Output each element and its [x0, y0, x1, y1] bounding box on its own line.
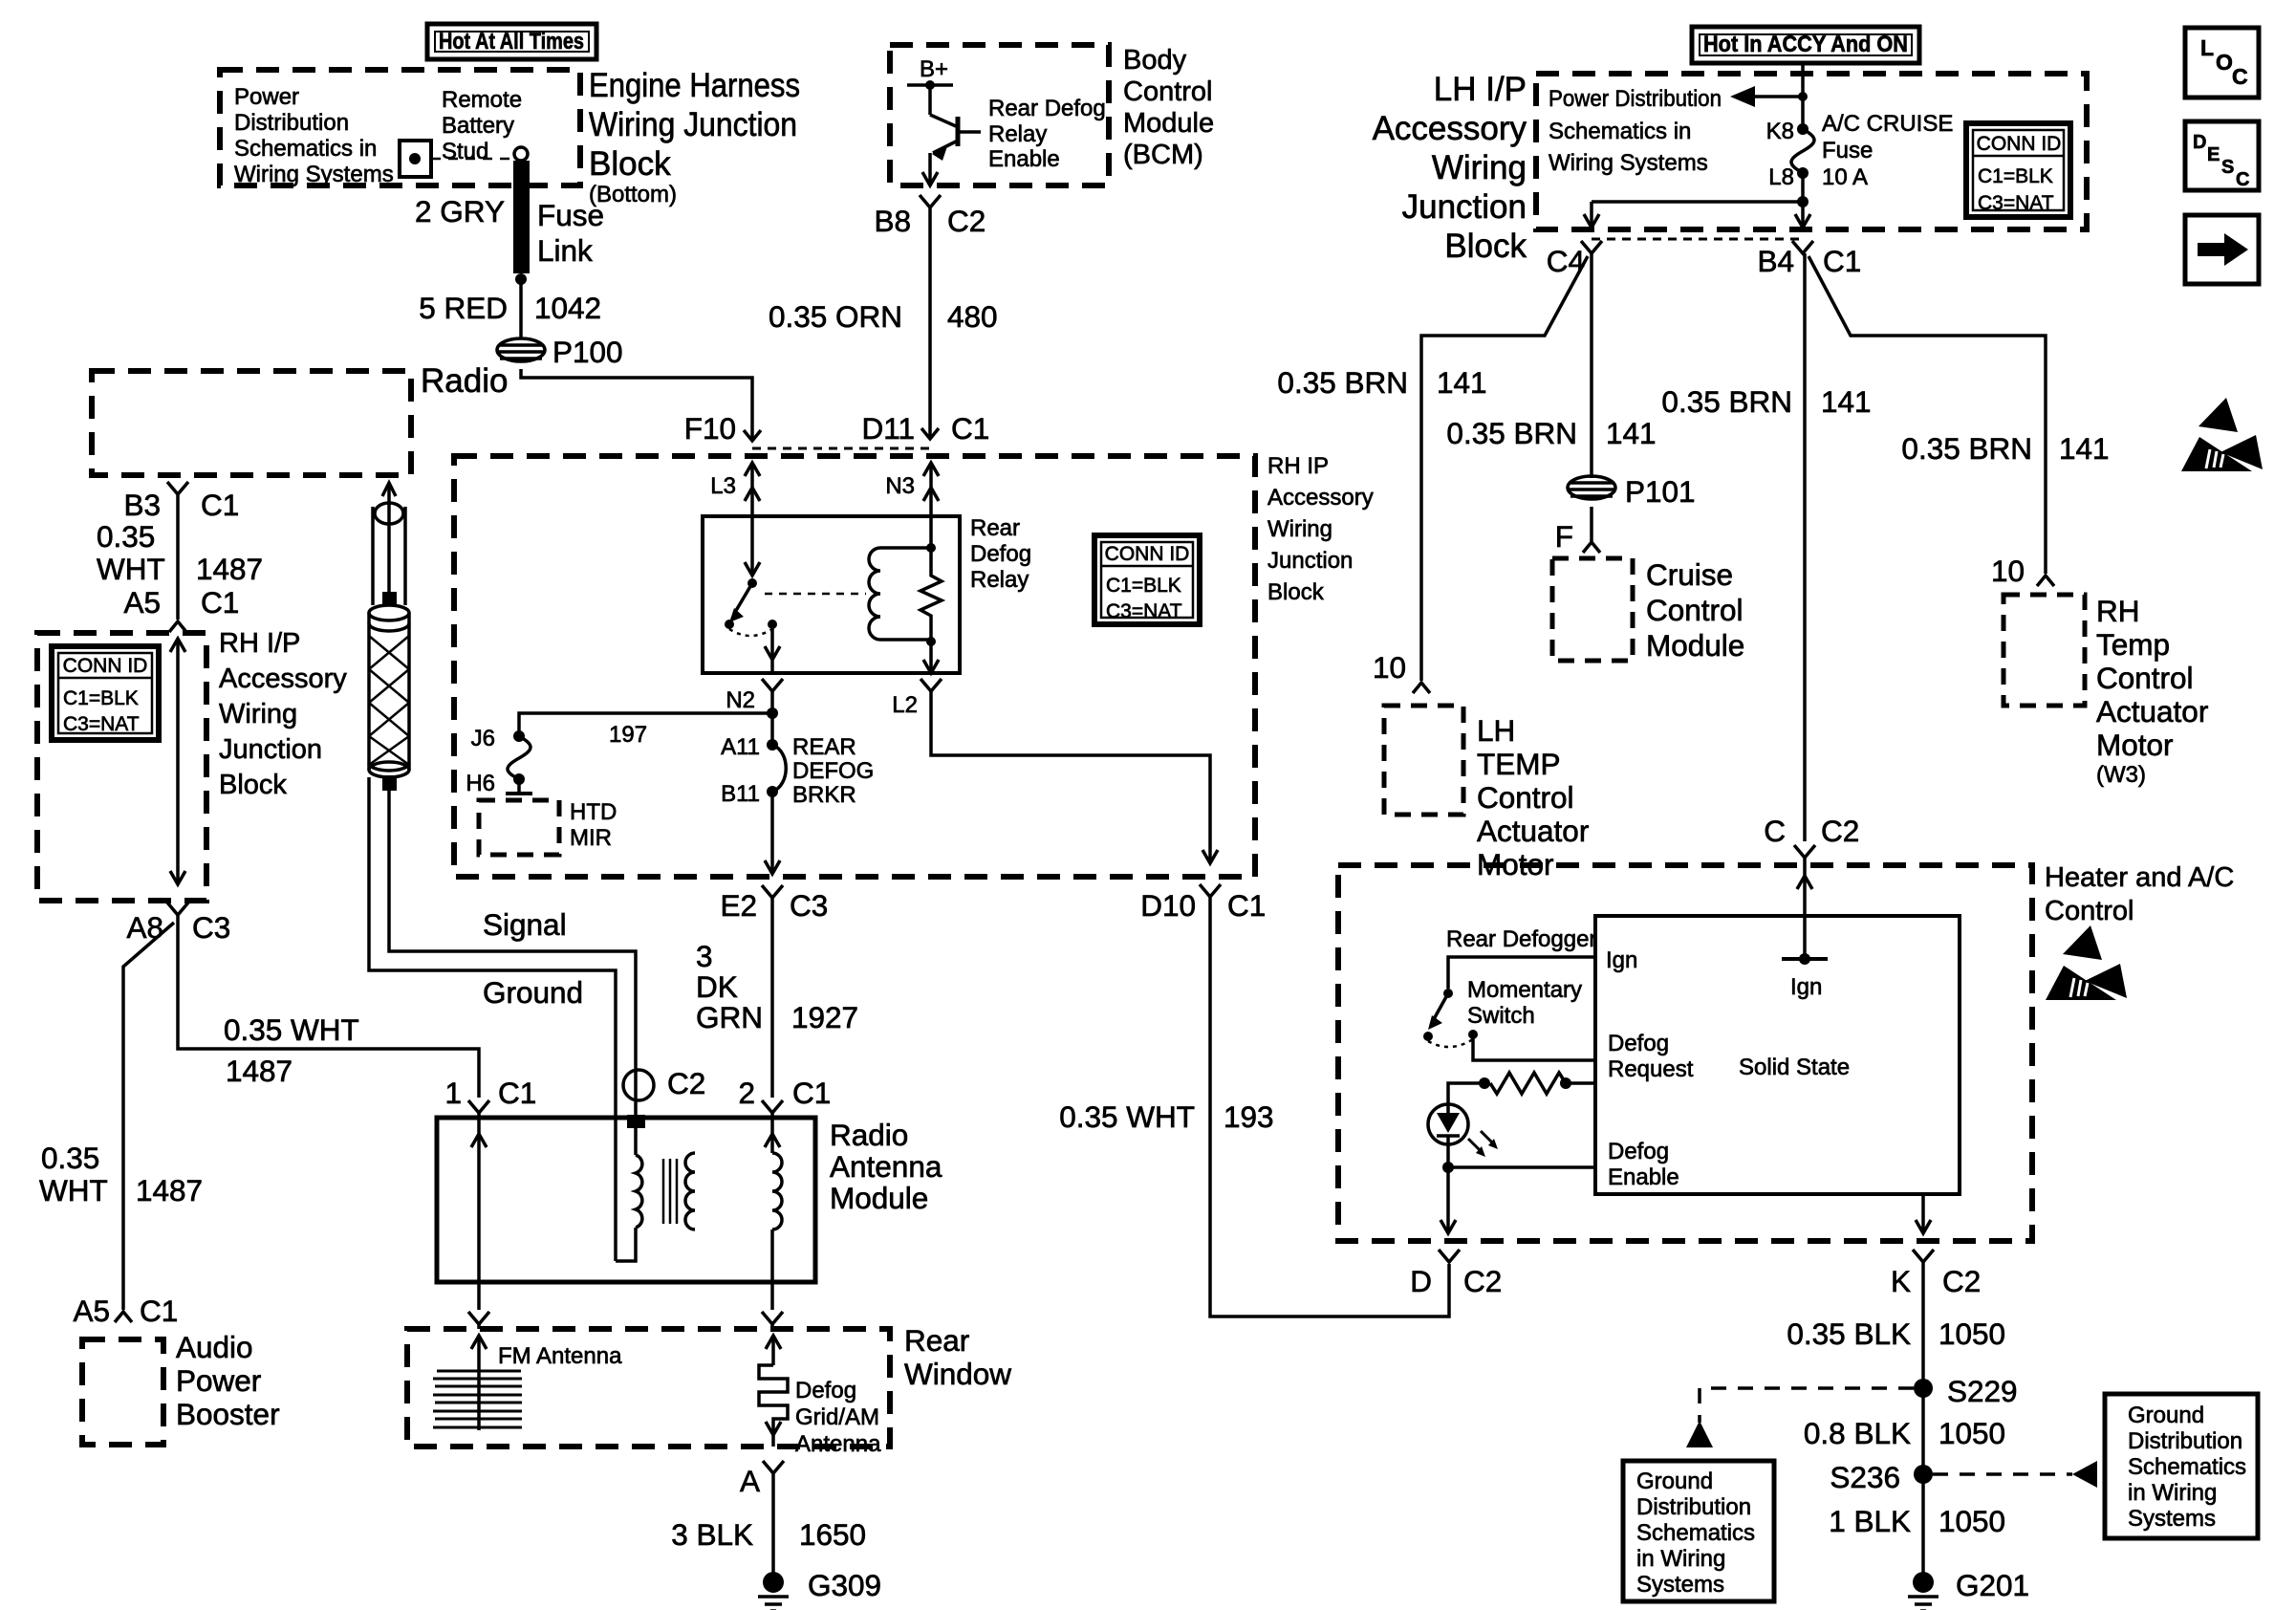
CONN ID table (left)	[52, 646, 159, 740]
label "RH Temp Control Actuator Motor (W3)"	[2096, 594, 2208, 788]
svg-text:A5: A5	[73, 1294, 110, 1328]
svg-text:LH: LH	[1477, 713, 1515, 748]
svg-text:FM Antenna: FM Antenna	[498, 1343, 622, 1369]
svg-text:Accessory: Accessory	[1373, 110, 1527, 147]
label "0.35 WHT 193"	[1059, 1099, 1273, 1134]
note "Power Distribution Schematics in Wiring Systems"	[1549, 86, 1722, 176]
svg-text:L3: L3	[710, 473, 736, 499]
label "K C2"	[1891, 1264, 1981, 1298]
svg-text:CONN ID: CONN ID	[63, 655, 148, 677]
svg-text:A8: A8	[126, 910, 163, 945]
label "0.35 BRN 141" (B4 run)	[1661, 384, 1871, 419]
svg-text:2 GRY: 2 GRY	[415, 194, 505, 228]
connector strip C4-B4 fine dashed	[1592, 238, 1803, 241]
connector N2 female end	[762, 679, 783, 691]
svg-text:1927: 1927	[791, 1000, 858, 1034]
svg-text:Actuator: Actuator	[2096, 694, 2208, 729]
svg-text:1050: 1050	[1939, 1416, 2005, 1450]
Radio dashed box	[92, 371, 411, 475]
svg-text:TEMP: TEMP	[1477, 747, 1561, 781]
svg-text:Rear: Rear	[970, 515, 1020, 541]
connector A5 male end	[169, 621, 186, 632]
svg-text:1650: 1650	[799, 1517, 866, 1552]
label "Rear Window"	[904, 1323, 1011, 1391]
svg-text:A11: A11	[721, 734, 760, 760]
connector A5 male end (audio power booster)	[115, 1312, 132, 1322]
splice S229	[1914, 1379, 1933, 1398]
svg-text:Motor: Motor	[2096, 728, 2174, 762]
svg-text:0.35 BRN: 0.35 BRN	[1446, 416, 1577, 450]
wire A8 to audio power booster	[123, 923, 174, 1310]
svg-text:P101: P101	[1625, 474, 1696, 509]
wire L2 to D10	[931, 691, 1210, 863]
svg-text:C1=BLK: C1=BLK	[1106, 575, 1181, 597]
CONN ID table (right)	[1966, 123, 2070, 217]
Engine Harness Wiring Junction Block dashed box	[220, 70, 580, 185]
relay coil output wire	[923, 642, 939, 673]
svg-text:MIR: MIR	[570, 825, 612, 851]
svg-text:Schematics in: Schematics in	[1549, 119, 1691, 144]
DESC index box	[2185, 121, 2259, 190]
svg-text:C1: C1	[1227, 888, 1266, 923]
svg-text:141: 141	[2059, 431, 2110, 466]
antenna mast	[373, 483, 405, 606]
wire module pin1 to rear window	[468, 1282, 489, 1329]
svg-text:C1: C1	[498, 1076, 536, 1110]
wire A to G309	[771, 1473, 775, 1574]
connector D female end	[1439, 1250, 1460, 1262]
FM antenna element	[433, 1336, 522, 1430]
label "2 C1"	[738, 1076, 831, 1110]
svg-text:C1=BLK: C1=BLK	[63, 687, 139, 709]
svg-text:Module: Module	[1123, 108, 1214, 139]
svg-text:1: 1	[444, 1076, 462, 1110]
svg-text:BRKR: BRKR	[792, 782, 856, 808]
svg-text:B3: B3	[123, 488, 161, 522]
svg-text:Solid State: Solid State	[1739, 1055, 1850, 1080]
wire pin1 through module	[471, 1113, 487, 1282]
svg-text:Block: Block	[219, 770, 287, 800]
svg-text:CONN ID: CONN ID	[1977, 133, 2062, 155]
svg-text:0.35 ORN: 0.35 ORN	[769, 299, 902, 334]
svg-text:Accessory: Accessory	[219, 664, 347, 694]
transformer primary winding	[616, 1128, 642, 1261]
svg-text:K: K	[1891, 1264, 1911, 1298]
svg-text:Power: Power	[234, 84, 299, 110]
label "3 BLK 1650"	[671, 1517, 866, 1552]
svg-text:C: C	[2232, 64, 2248, 89]
svg-text:Radio: Radio	[830, 1118, 908, 1152]
svg-text:480: 480	[947, 299, 998, 334]
forward arrow index box	[2185, 215, 2259, 284]
svg-text:Accessory: Accessory	[1267, 485, 1374, 511]
svg-text:B8: B8	[874, 204, 911, 238]
svg-text:Body: Body	[1123, 45, 1187, 76]
connector K female end	[1913, 1250, 1934, 1262]
svg-text:Block: Block	[1444, 228, 1527, 265]
svg-text:S229: S229	[1947, 1374, 2018, 1408]
relay switch arm	[725, 516, 780, 673]
label "5 RED 1042"	[419, 291, 601, 325]
svg-text:WHT: WHT	[97, 552, 165, 586]
svg-text:C2: C2	[667, 1066, 705, 1100]
svg-text:1050: 1050	[1939, 1504, 2005, 1538]
svg-text:0.35 BLK: 0.35 BLK	[1787, 1316, 1911, 1351]
wire D10 to heater D	[1210, 897, 1449, 1316]
Rear Window dashed box	[407, 1329, 890, 1447]
svg-text:S236: S236	[1830, 1460, 1900, 1494]
label "Body Control Module (BCM)"	[1123, 45, 1214, 170]
svg-text:C2: C2	[1463, 1264, 1502, 1298]
svg-text:D: D	[1410, 1264, 1432, 1298]
svg-text:Ground: Ground	[1636, 1469, 1713, 1494]
label "C C2"	[1764, 814, 1859, 848]
svg-text:Control: Control	[2096, 661, 2194, 695]
antenna coax body	[369, 605, 409, 791]
connector L2 female end	[921, 679, 942, 691]
label "3 DK GRN 1927"	[696, 939, 858, 1034]
svg-text:DEFOG: DEFOG	[792, 758, 874, 784]
svg-text:Wiring Systems: Wiring Systems	[234, 162, 394, 187]
connector D11 male end	[921, 428, 939, 439]
label "D C2"	[1410, 1264, 1502, 1298]
HTD MIR dashed box	[479, 800, 559, 855]
label "A5 C1"	[123, 585, 239, 620]
svg-text:C1: C1	[792, 1076, 831, 1110]
Audio Power Booster dashed box	[82, 1339, 163, 1445]
module C2 feedthrough square	[627, 1115, 645, 1128]
svg-text:K8: K8	[1766, 119, 1794, 144]
label "REAR DEFOG BRKR"	[792, 734, 874, 808]
svg-text:Distribution: Distribution	[234, 110, 349, 136]
svg-text:E: E	[2207, 144, 2220, 165]
label "0.35 WHT 1487" (vertical run)	[39, 1141, 203, 1207]
svg-text:Schematics in: Schematics in	[234, 136, 377, 162]
wire hot feed into junction block	[1798, 63, 1808, 129]
svg-text:10 A: 10 A	[1822, 164, 1868, 190]
connector F10 male end	[744, 430, 761, 441]
label "0.8 BLK 1050"	[1804, 1416, 2005, 1450]
svg-text:RH: RH	[2096, 594, 2140, 628]
svg-text:Block: Block	[589, 145, 671, 183]
connector B4 female end	[1792, 241, 1813, 253]
label "Engine Harness Wiring Junction Block (Bottom)"	[589, 67, 800, 207]
grommet P101	[1568, 476, 1615, 499]
svg-text:L8: L8	[1768, 164, 1794, 190]
connector A female end	[763, 1461, 784, 1473]
svg-text:Wiring Systems: Wiring Systems	[1549, 150, 1708, 176]
svg-text:Ign: Ign	[1790, 974, 1822, 1000]
svg-text:LH I/P: LH I/P	[1434, 71, 1527, 108]
svg-text:B4: B4	[1757, 244, 1794, 278]
wire C into solid state	[1797, 858, 1812, 959]
svg-text:L: L	[2200, 35, 2214, 60]
svg-text:Radio: Radio	[421, 362, 508, 400]
svg-text:Distribution: Distribution	[1636, 1494, 1751, 1520]
svg-text:Power: Power	[176, 1363, 261, 1398]
grommet P100	[497, 338, 545, 361]
svg-text:1050: 1050	[1939, 1316, 2005, 1351]
Radio Antenna Module box	[437, 1118, 815, 1282]
svg-text:S: S	[2221, 157, 2234, 178]
LH TEMP Control Actuator Motor dashed box	[1384, 706, 1463, 815]
CONN ID table (middle)	[1094, 535, 1200, 624]
indicator LED	[1428, 1104, 1498, 1167]
svg-text:Block: Block	[1267, 579, 1325, 605]
svg-text:Audio: Audio	[176, 1330, 253, 1364]
svg-text:Antenna: Antenna	[795, 1431, 881, 1457]
label "0.35 BRN 141" (right run)	[1901, 431, 2109, 466]
svg-text:Junction: Junction	[1402, 188, 1527, 226]
svg-text:C3=NAT: C3=NAT	[1106, 600, 1182, 622]
svg-text:Heater and A/C: Heater and A/C	[2045, 862, 2234, 893]
svg-text:Systems: Systems	[2128, 1506, 2216, 1532]
svg-text:Request: Request	[1608, 1056, 1694, 1082]
svg-text:0.35 WHT: 0.35 WHT	[224, 1012, 359, 1047]
svg-text:HTD: HTD	[570, 799, 617, 825]
wire antenna signal	[389, 791, 636, 1118]
svg-text:A5: A5	[123, 585, 161, 620]
svg-text:Wiring Junction: Wiring Junction	[589, 106, 797, 143]
svg-text:Actuator: Actuator	[1477, 814, 1589, 848]
svg-text:193: 193	[1224, 1099, 1274, 1134]
svg-text:Grid/AM: Grid/AM	[795, 1404, 879, 1430]
label "0.35 WHT 1487"	[97, 519, 263, 586]
svg-text:Defog: Defog	[1608, 1139, 1669, 1164]
connector B3 female end	[167, 482, 188, 494]
RH IP Accessory Wiring Junction Block dashed box	[454, 456, 1255, 877]
connector C female end	[1794, 845, 1815, 858]
svg-text:C1: C1	[201, 488, 239, 522]
relay coil	[869, 516, 936, 646]
wire C4 to P101	[1590, 253, 1593, 478]
svg-text:Hot In ACCY And ON: Hot In ACCY And ON	[1703, 32, 1908, 57]
wire fuse link to P100	[519, 279, 523, 338]
svg-text:Defog: Defog	[1608, 1031, 1669, 1056]
svg-text:L2: L2	[892, 692, 918, 718]
label "D11 C1"	[862, 411, 990, 446]
svg-text:in Wiring: in Wiring	[1636, 1546, 1725, 1572]
svg-text:F: F	[1555, 519, 1573, 554]
relay K1 box	[703, 516, 960, 673]
svg-text:Link: Link	[537, 233, 593, 268]
label "E2 C3"	[720, 888, 828, 923]
svg-text:Junction: Junction	[1267, 548, 1353, 574]
svg-text:J6: J6	[471, 726, 495, 751]
svg-text:2: 2	[738, 1076, 755, 1110]
LH I/P Accessory Wiring Junction Block dashed box	[1536, 74, 2087, 229]
Ground Distribution Schematics box (right)	[2105, 1394, 2258, 1538]
svg-text:Engine Harness: Engine Harness	[589, 67, 800, 104]
svg-text:10: 10	[1373, 650, 1406, 685]
label "Heater and A/C Control"	[2045, 862, 2234, 926]
svg-text:WHT: WHT	[39, 1173, 108, 1207]
svg-text:Ground: Ground	[483, 975, 583, 1010]
svg-text:C1: C1	[1823, 244, 1861, 278]
svg-text:Rear: Rear	[904, 1323, 969, 1358]
svg-text:3 BLK: 3 BLK	[671, 1517, 753, 1552]
svg-text:Relay: Relay	[988, 121, 1047, 147]
label "B4 C1"	[1757, 244, 1861, 278]
svg-text:C3=NAT: C3=NAT	[1978, 192, 2054, 214]
svg-text:Ign: Ign	[1606, 947, 1637, 973]
svg-text:Schematics: Schematics	[1636, 1520, 1755, 1546]
svg-text:Systems: Systems	[1636, 1572, 1724, 1598]
splice S236	[1914, 1465, 1933, 1484]
label box "Hot In ACCY And ON"	[1692, 27, 1919, 63]
circuit breaker A11-B11 REAR DEFOG BRKR	[765, 739, 786, 874]
svg-text:0.8 BLK: 0.8 BLK	[1804, 1416, 1911, 1450]
svg-text:C2: C2	[947, 204, 986, 238]
svg-text:P100: P100	[552, 335, 623, 369]
svg-text:0.35 BRN: 0.35 BRN	[1901, 431, 2032, 466]
svg-text:C3=NAT: C3=NAT	[63, 713, 140, 735]
label "Momentary Switch"	[1467, 977, 1582, 1029]
wire B4 to heater C	[1803, 253, 1807, 841]
wire P101 to cruise control module	[1590, 507, 1593, 541]
label "0.35 ORN 480"	[769, 299, 998, 334]
Ground Distribution Schematics box (left)	[1623, 1461, 1774, 1601]
wire module pin2 to rear window	[762, 1282, 783, 1329]
svg-text:Module: Module	[830, 1181, 928, 1215]
svg-text:O: O	[2216, 50, 2233, 75]
label "1 BLK 1050"	[1829, 1504, 2005, 1538]
svg-text:Rear Defogger: Rear Defogger	[1446, 926, 1596, 952]
indicator resistor	[1448, 1073, 1595, 1104]
svg-text:Temp: Temp	[2096, 627, 2170, 662]
svg-text:Cruise: Cruise	[1646, 557, 1733, 592]
svg-text:N3: N3	[885, 473, 915, 499]
pin L3 arrow	[745, 463, 760, 516]
label "Defog Request"	[1608, 1031, 1694, 1082]
svg-text:GRN: GRN	[696, 1000, 763, 1034]
label "Fuse Link"	[537, 198, 604, 268]
wire K to G201	[1921, 1262, 1925, 1574]
transformer core	[663, 1159, 677, 1224]
wire antenna ground	[369, 777, 616, 1261]
svg-text:Power Distribution: Power Distribution	[1549, 86, 1722, 112]
connector E2 female end	[762, 885, 783, 898]
svg-text:1487: 1487	[226, 1054, 292, 1088]
dashed reference wire S236	[1933, 1461, 2097, 1488]
svg-text:Control: Control	[1477, 780, 1574, 815]
label "RH I/P Accessory Wiring Junction Block"	[219, 628, 347, 800]
wire C1 branch to RH temp actuator	[1809, 256, 2046, 574]
RH I/P Accessory Wiring Junction Block dashed box (left)	[37, 633, 206, 901]
relay linkage dashed	[765, 593, 866, 596]
svg-text:Module: Module	[1646, 628, 1744, 663]
label "LH TEMP Control Actuator Motor"	[1477, 713, 1589, 881]
svg-text:Battery: Battery	[442, 113, 514, 139]
svg-text:10: 10	[1991, 554, 2025, 588]
svg-text:0.35: 0.35	[41, 1141, 99, 1175]
label "A8 C3"	[126, 910, 230, 945]
svg-text:C3: C3	[790, 888, 828, 923]
connector C4 female end	[1581, 241, 1602, 253]
LOC index box	[2185, 28, 2259, 98]
svg-text:G309: G309	[808, 1568, 881, 1602]
svg-text:RH I/P: RH I/P	[219, 628, 300, 659]
wire P100 to F10	[521, 369, 752, 440]
svg-text:N2: N2	[726, 687, 755, 713]
svg-text:B11: B11	[721, 781, 760, 807]
svg-text:197: 197	[609, 722, 647, 748]
Cruise Control Module dashed box	[1552, 558, 1633, 661]
svg-text:REAR: REAR	[792, 734, 856, 760]
svg-text:Fuse: Fuse	[537, 198, 604, 232]
svg-text:E2: E2	[720, 888, 757, 923]
svg-text:C3: C3	[192, 910, 230, 945]
remote battery stud symbol	[400, 141, 431, 177]
svg-text:D11: D11	[862, 411, 915, 446]
svg-text:Junction: Junction	[219, 734, 322, 765]
svg-text:Rear Defog: Rear Defog	[988, 96, 1106, 121]
connector pin 1 C1 female end	[468, 1100, 489, 1113]
wire C4 branch to LH temp actuator	[1421, 256, 1588, 681]
output coil	[772, 1153, 782, 1282]
svg-text:1487: 1487	[196, 552, 263, 586]
label box "Hot At All Times"	[427, 24, 596, 59]
relay contact resistor	[921, 548, 942, 642]
svg-text:D10: D10	[1140, 888, 1196, 923]
label "Remote Battery Stud"	[442, 87, 522, 164]
label "0.35 BRN 141" (far left)	[1277, 365, 1486, 400]
wire node 197 to mirror circuit	[519, 713, 772, 736]
dashed reference wire S229	[1686, 1388, 1914, 1447]
svg-text:Distribution: Distribution	[2128, 1428, 2242, 1454]
svg-text:Wiring: Wiring	[1432, 149, 1527, 186]
label "A5 C1" (audio power booster)	[73, 1294, 178, 1328]
svg-text:Momentary: Momentary	[1467, 977, 1582, 1003]
wire through left junction block	[170, 639, 185, 884]
pin N3 arrow	[923, 463, 939, 516]
fuse link F1	[513, 147, 530, 285]
connector pin 2 C1 female end	[762, 1100, 783, 1113]
connector F male end	[1583, 542, 1600, 553]
svg-text:Window: Window	[904, 1357, 1011, 1391]
svg-text:Control: Control	[2045, 896, 2134, 926]
note "Power Distribution Schematics in Wiring Systems"	[234, 84, 394, 187]
svg-text:Defog: Defog	[970, 541, 1031, 567]
svg-text:B+: B+	[920, 56, 948, 82]
ground G309	[758, 1572, 789, 1610]
wire K output	[1916, 1194, 1931, 1233]
label "A/C CRUISE Fuse 10 A"	[1822, 111, 1953, 190]
svg-text:Signal: Signal	[483, 907, 567, 942]
svg-text:5 RED: 5 RED	[419, 291, 508, 325]
wire A8 to radio antenna module pin 1	[178, 915, 479, 1098]
svg-text:Ground: Ground	[2128, 1403, 2204, 1428]
wire fuse to C4 and B4	[1584, 173, 1810, 228]
svg-text:Stud: Stud	[442, 139, 488, 164]
svg-text:Control: Control	[1646, 593, 1744, 627]
Heater and A/C Control dashed box	[1338, 865, 2032, 1241]
label "D10 C1"	[1140, 888, 1266, 923]
svg-text:DK: DK	[696, 969, 738, 1004]
dashed wire stud to fuse link	[431, 158, 512, 161]
label "LH I/P Accessory Wiring Junction Block"	[1373, 71, 1527, 265]
label "Defog Grid/AM Antenna"	[795, 1378, 881, 1457]
svg-text:C1: C1	[951, 411, 989, 446]
svg-text:Schematics: Schematics	[2128, 1454, 2246, 1480]
label "RH IP Accessory Wiring Junction Block"	[1267, 453, 1374, 605]
label "B8 C2"	[874, 204, 986, 238]
svg-text:Remote: Remote	[442, 87, 522, 113]
label "HTD MIR"	[570, 799, 617, 851]
svg-text:1487: 1487	[136, 1173, 203, 1207]
ESD symbol (upper right)	[2181, 398, 2263, 471]
svg-text:Relay: Relay	[970, 567, 1029, 593]
